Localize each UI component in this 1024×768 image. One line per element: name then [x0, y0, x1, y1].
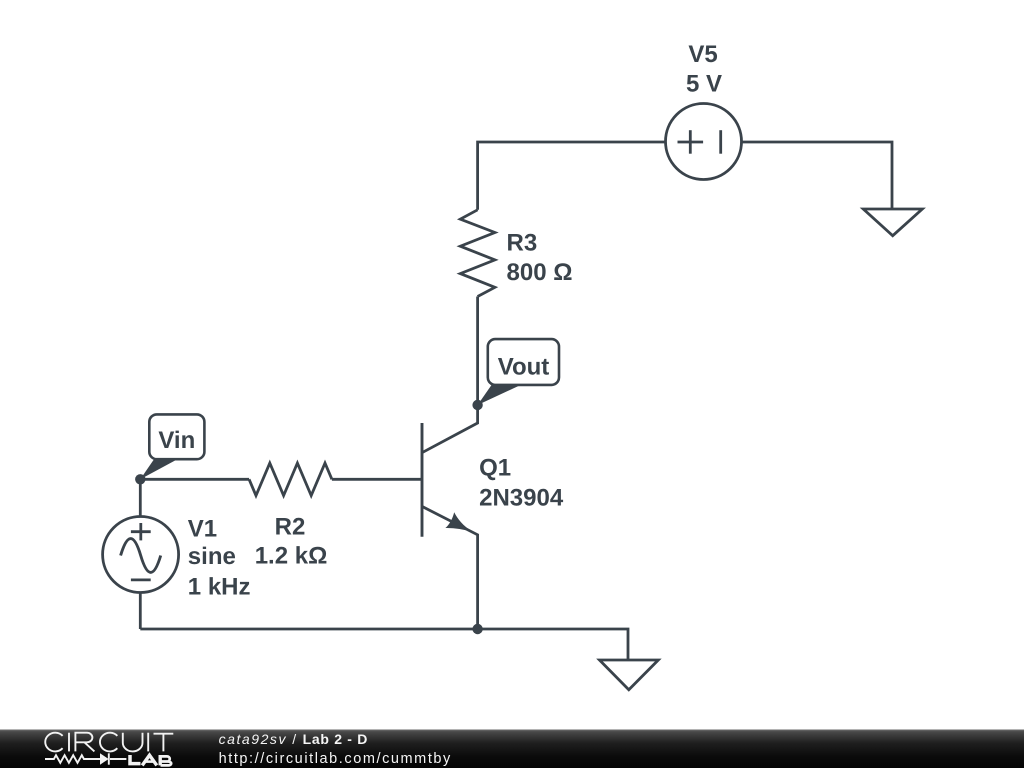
- svg-text:V1: V1: [188, 515, 217, 542]
- svg-text:5 V: 5 V: [686, 71, 722, 98]
- svg-text:Q1: Q1: [479, 455, 511, 482]
- svg-text:2N3904: 2N3904: [479, 485, 564, 512]
- svg-text:R3: R3: [507, 229, 538, 256]
- svg-text:sine: sine: [188, 543, 236, 570]
- svg-text:800 Ω: 800 Ω: [507, 259, 573, 286]
- svg-text:1 kHz: 1 kHz: [188, 574, 251, 601]
- svg-text:R2: R2: [275, 514, 306, 541]
- svg-text:Vin: Vin: [158, 427, 195, 454]
- svg-text:http://circuitlab.com/cummtby: http://circuitlab.com/cummtby: [219, 751, 452, 767]
- svg-text:1.2 kΩ: 1.2 kΩ: [255, 543, 328, 570]
- svg-text:cata92sv / Lab 2 - D: cata92sv / Lab 2 - D: [219, 731, 368, 747]
- svg-text:V5: V5: [688, 41, 717, 68]
- svg-text:Vout: Vout: [498, 354, 550, 381]
